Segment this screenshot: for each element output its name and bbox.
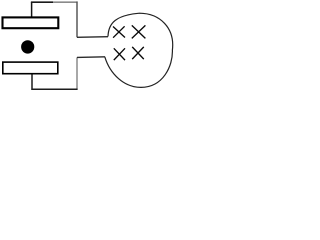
prong blade 1 (top) [3,17,59,28]
plug P1 body: right lower vertical [76,57,78,89]
contact dot [21,40,34,53]
X mark 4 [132,47,144,59]
plug P1 body: bottom edge [31,88,77,90]
X mark 1 [113,26,125,37]
motor M1 circle [105,13,173,87]
plug P1 body: left upper vertical [31,2,33,17]
plug P1 body: right upper vertical [76,2,78,38]
plug P1 body: top edge right part [53,1,78,3]
X mark 2 [132,25,146,38]
wire bottom conductor [77,56,105,59]
X mark 3 [114,48,125,60]
wire top conductor [77,36,108,39]
plug P1 body: left lower vertical [31,74,33,90]
prong blade 2 (bottom) [3,62,58,74]
plug P1 body: top edge left part [31,1,53,3]
